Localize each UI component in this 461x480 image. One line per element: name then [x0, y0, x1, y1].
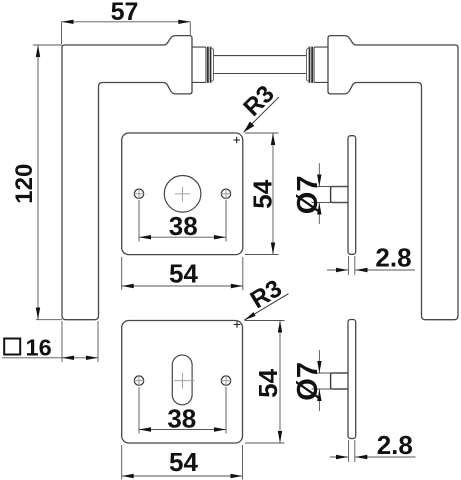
- side stub lower: [331, 373, 348, 389]
- svg-text:Ø7: Ø7: [292, 176, 324, 215]
- dim 38 upper arrows: [139, 235, 151, 239]
- svg-text:2.8: 2.8: [377, 430, 413, 460]
- svg-text:120: 120: [11, 164, 38, 204]
- dim 54 lower right arrows: [278, 321, 282, 333]
- dim 16 arrows: [62, 356, 74, 360]
- rose plate upper: [122, 133, 243, 255]
- dim 38 lower line: [139, 429, 226, 431]
- dim 57 line: [62, 21, 191, 23]
- lever handle left (outline): [62, 36, 192, 320]
- dim 16 line: [62, 357, 98, 359]
- R3 lower leader: [244, 294, 288, 321]
- svg-text:54: 54: [169, 258, 198, 288]
- screw hole lower right: [221, 376, 230, 385]
- spindle hole upper: [164, 176, 201, 213]
- center cross lower: [174, 373, 195, 389]
- dim 2.8 upper arrows: [336, 268, 348, 272]
- svg-text:R3: R3: [246, 275, 287, 314]
- svg-text:54: 54: [247, 179, 277, 208]
- dim 16 leader line: [2, 357, 62, 359]
- side stub upper: [331, 187, 348, 203]
- handle left collar rings: [207, 47, 209, 83]
- dim 2.8 lower lines: [330, 456, 416, 458]
- screw hole upper right: [221, 189, 230, 198]
- dim 57 arrows: [62, 20, 74, 24]
- dim 38 upper line: [139, 236, 226, 238]
- rose plate lower: [122, 321, 243, 444]
- dim dia7 lower arrows: [317, 361, 321, 373]
- center cross upper: [175, 187, 190, 202]
- dim 2.8 upper lines: [327, 269, 415, 271]
- corner mark lower: [234, 321, 241, 328]
- svg-text:57: 57: [111, 0, 139, 26]
- spindle: [214, 56, 307, 74]
- svg-text:R3: R3: [238, 80, 279, 121]
- dim 38 upper ext lines: [139, 200, 226, 242]
- dim 54 upper right line: [272, 133, 274, 255]
- screw hole lower left: [134, 376, 143, 385]
- svg-text:Ø7: Ø7: [292, 362, 324, 401]
- handle right collar rings: [311, 47, 313, 83]
- key oval lower: [172, 355, 192, 405]
- label square16: [4, 339, 20, 355]
- svg-text:54: 54: [253, 368, 283, 397]
- dim 54 upper bottom line: [122, 285, 243, 287]
- side plate lower: [348, 320, 356, 439]
- dim 120 ext top: [33, 44, 62, 46]
- corner mark upper: [233, 137, 240, 144]
- dim 57 ext left: [61, 22, 63, 44]
- dim 54 upper right ext lines: [245, 133, 279, 255]
- dim 54 upper bottom ext lines: [122, 257, 243, 290]
- dim 54 lower right line: [279, 321, 281, 444]
- dim 120 line: [37, 45, 39, 320]
- dim 16 ext lines: [62, 321, 98, 362]
- side plate upper: [348, 136, 356, 255]
- handle right cylinder: [314, 47, 328, 82]
- dim dia7 lower lines: [318, 350, 320, 411]
- dim 38 lower ext lines: [139, 387, 226, 434]
- svg-text:54: 54: [169, 447, 198, 477]
- svg-text:38: 38: [167, 403, 196, 433]
- dim 54 upper bottom arrows: [122, 284, 134, 288]
- dim 38 lower arrows: [139, 427, 151, 431]
- dim 57 ext right: [189, 22, 191, 35]
- handle left cylinder: [192, 47, 206, 82]
- dim 120 arrows: [36, 45, 40, 57]
- screw hole upper left: [134, 189, 143, 198]
- dim dia7 lower ext lines: [312, 373, 348, 389]
- dim 2.8 lower ext lines: [349, 440, 355, 462]
- lever handle right (outline): [328, 36, 458, 320]
- dim 54 lower right ext lines: [245, 321, 285, 444]
- R3 upper leader: [244, 97, 279, 132]
- dim 54 lower bottom arrows: [122, 474, 134, 478]
- dim 120 ext bottom: [36, 319, 62, 321]
- dim 54 lower bottom ext lines: [122, 445, 243, 480]
- svg-text:16: 16: [26, 334, 52, 360]
- dim dia7 upper lines: [318, 163, 320, 224]
- svg-text:38: 38: [169, 211, 198, 241]
- dim 2.8 upper ext lines: [349, 256, 355, 275]
- dim dia7 upper arrows: [317, 175, 321, 187]
- svg-text:2.8: 2.8: [375, 242, 411, 272]
- dim 2.8 lower arrows: [336, 455, 348, 459]
- dim dia7 upper ext lines: [312, 187, 348, 203]
- dim 54 lower bottom line: [122, 475, 243, 477]
- dim 54 upper right arrows: [271, 133, 275, 145]
